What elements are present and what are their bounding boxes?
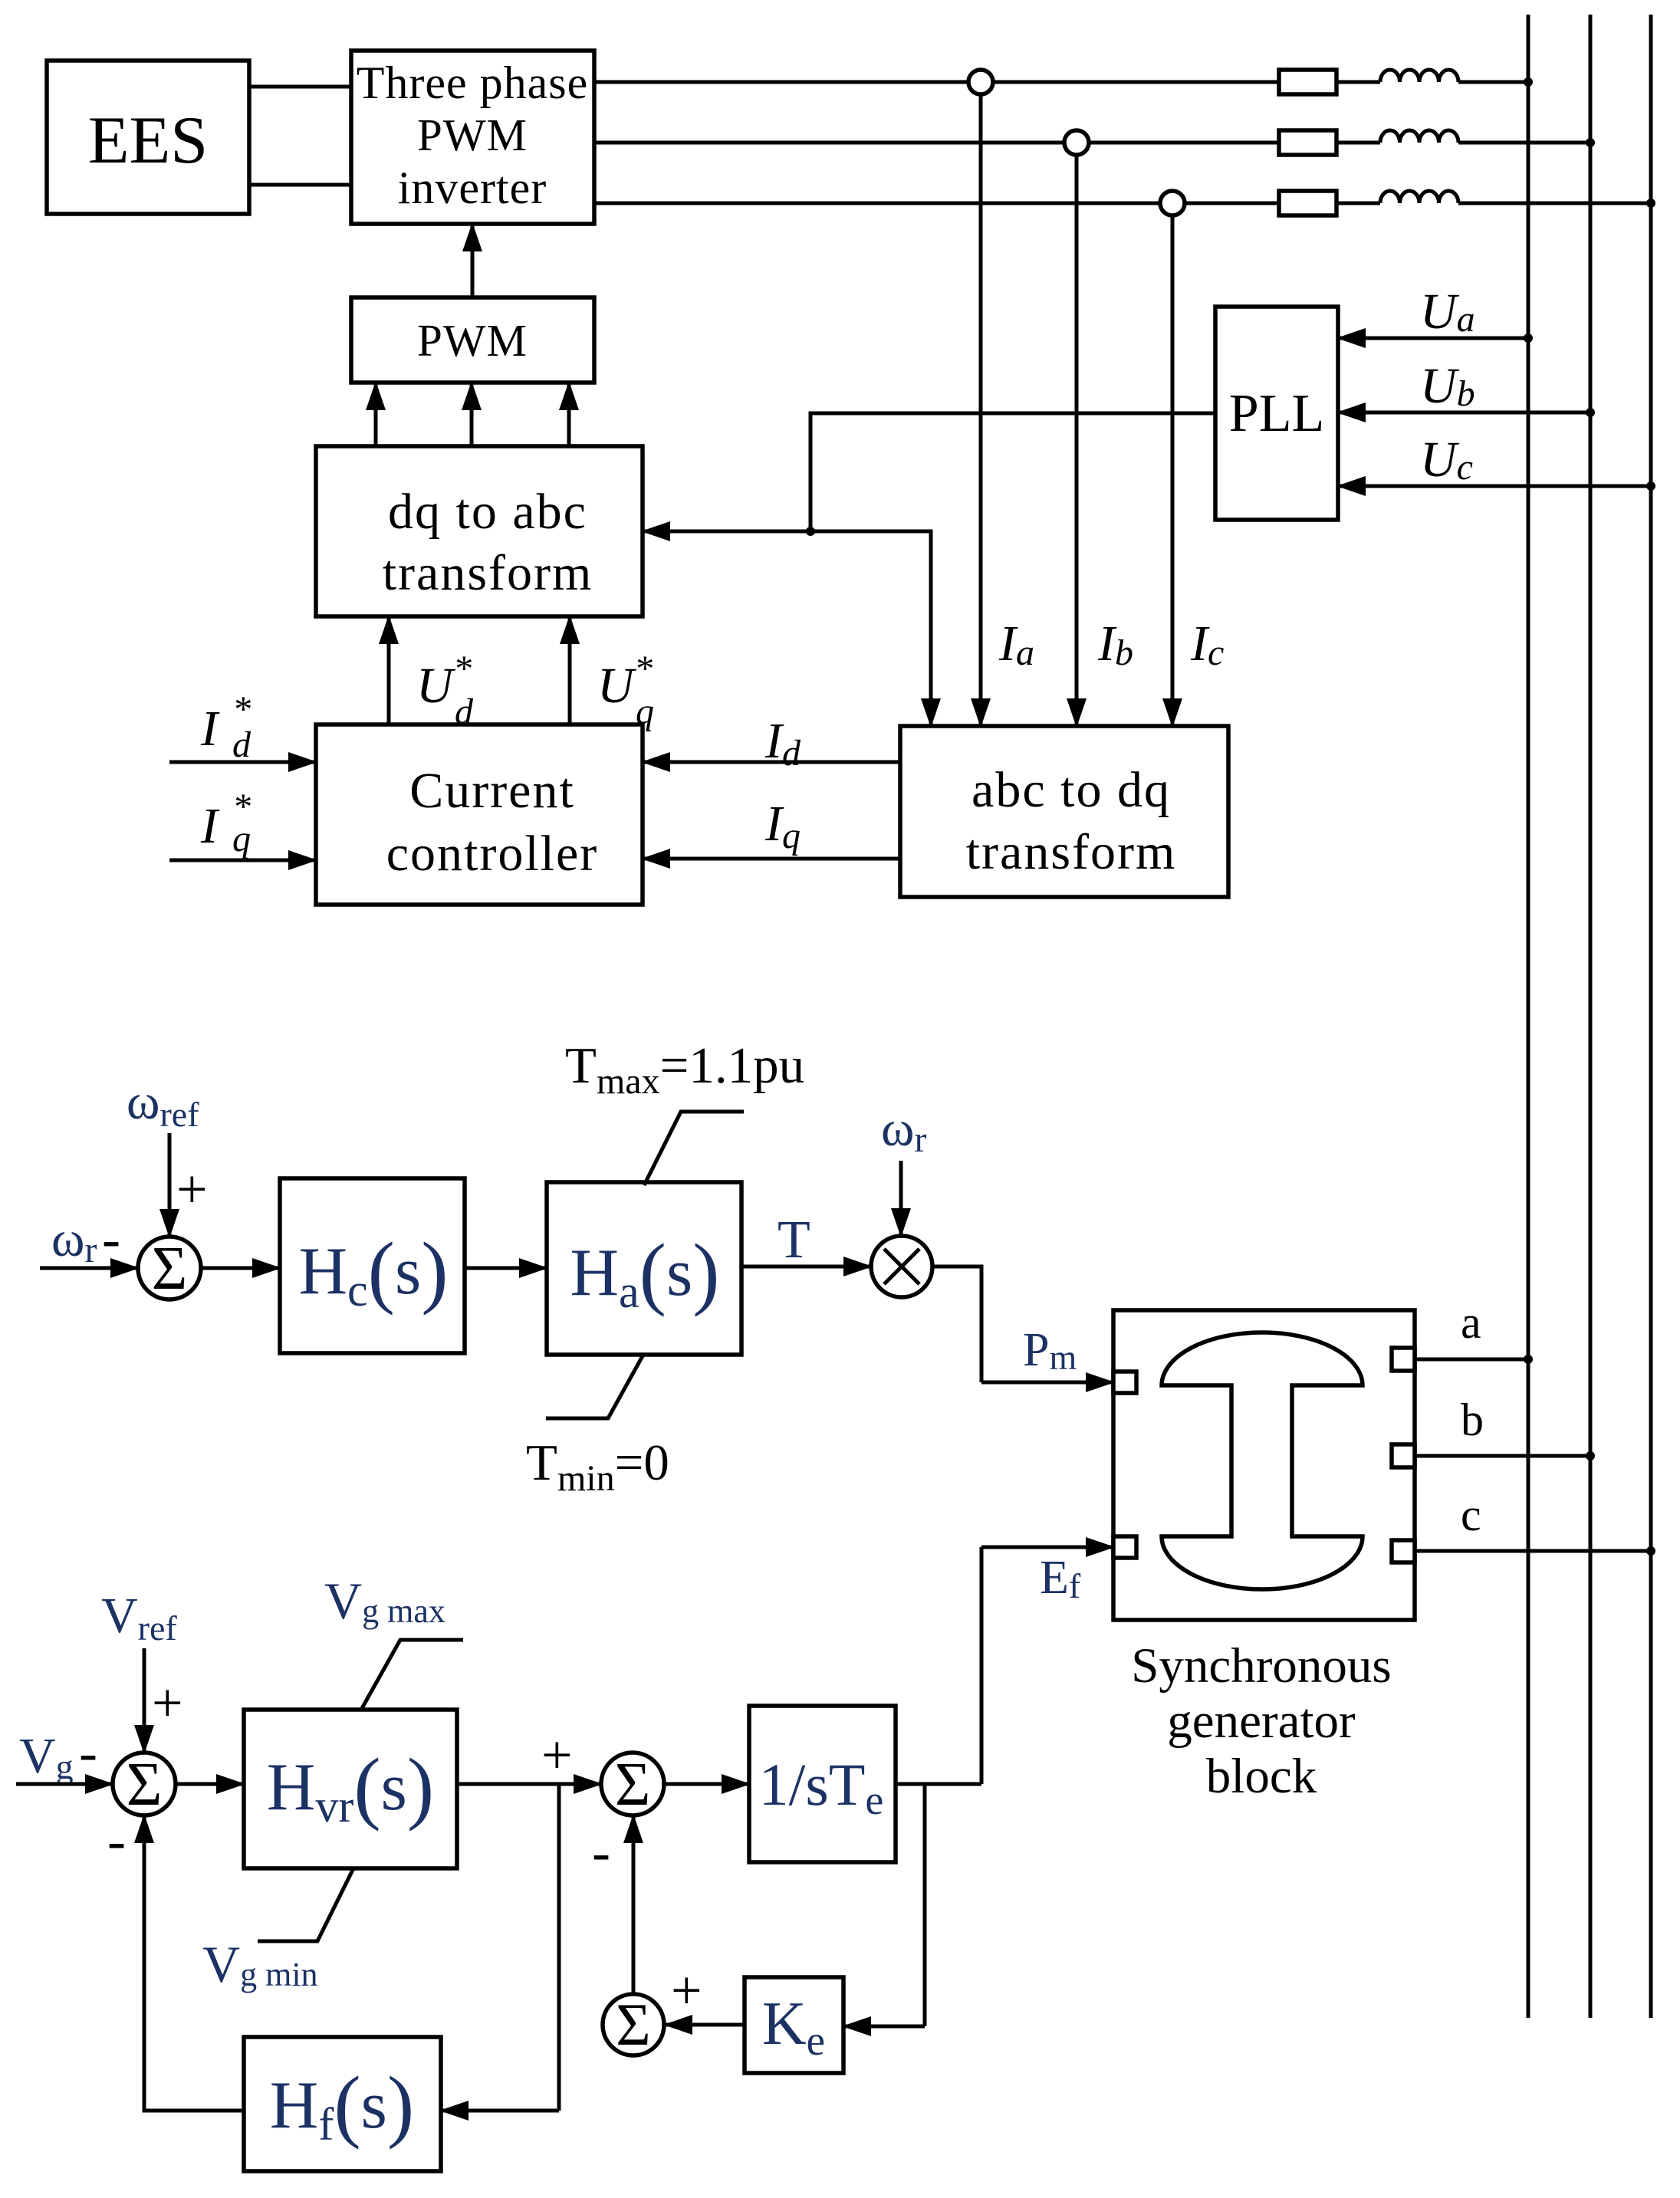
- svg-text:U: U: [416, 658, 456, 714]
- svg-text:+: +: [541, 1724, 573, 1786]
- svg-text:Hf(s): Hf(s): [270, 2060, 414, 2150]
- svg-text:transform: transform: [383, 545, 593, 601]
- svg-text:c: c: [1461, 1490, 1481, 1540]
- svg-text:controller: controller: [386, 826, 599, 882]
- svg-text:PWM: PWM: [417, 110, 528, 160]
- svg-text:1/sTe: 1/sTe: [759, 1751, 884, 1823]
- svg-text:EES: EES: [88, 103, 208, 178]
- svg-text:PLL: PLL: [1229, 384, 1324, 443]
- svg-text:dq to abc: dq to abc: [388, 484, 587, 540]
- svg-text:Σ: Σ: [616, 1991, 650, 2058]
- svg-text:q: q: [636, 692, 654, 732]
- svg-text:-: -: [592, 1822, 610, 1883]
- svg-text:Ha(s): Ha(s): [570, 1227, 719, 1317]
- svg-text:a: a: [1461, 1297, 1481, 1348]
- svg-text:Three phase: Three phase: [357, 57, 589, 108]
- svg-text:q: q: [232, 819, 251, 859]
- svg-text:*: *: [634, 649, 653, 689]
- svg-text:Σ: Σ: [152, 1235, 188, 1303]
- svg-text:Hc(s): Hc(s): [298, 1226, 448, 1316]
- svg-text:inverter: inverter: [398, 163, 547, 213]
- svg-text:block: block: [1206, 1749, 1317, 1804]
- svg-text:-: -: [107, 1810, 126, 1871]
- svg-text:generator: generator: [1167, 1694, 1356, 1749]
- svg-text:transform: transform: [966, 824, 1177, 880]
- svg-text:+: +: [671, 1960, 702, 2021]
- svg-text:*: *: [453, 649, 472, 689]
- svg-text:-: -: [79, 1722, 97, 1783]
- svg-text:Synchronous: Synchronous: [1131, 1638, 1391, 1694]
- svg-text:PWM: PWM: [417, 315, 528, 366]
- svg-text:U: U: [597, 658, 637, 714]
- svg-text:Σ: Σ: [615, 1751, 651, 1819]
- svg-text:d: d: [455, 692, 474, 732]
- svg-text:Current: Current: [409, 763, 575, 819]
- svg-text:b: b: [1461, 1395, 1484, 1445]
- svg-text:+: +: [152, 1672, 183, 1733]
- svg-text:+: +: [176, 1158, 208, 1220]
- svg-text:I: I: [200, 701, 220, 757]
- svg-text:-: -: [102, 1208, 120, 1270]
- svg-text:d: d: [232, 724, 252, 765]
- svg-text:abc to dq: abc to dq: [972, 762, 1171, 818]
- svg-text:I: I: [200, 798, 220, 854]
- svg-text:Σ: Σ: [127, 1751, 163, 1819]
- svg-text:T: T: [778, 1211, 810, 1270]
